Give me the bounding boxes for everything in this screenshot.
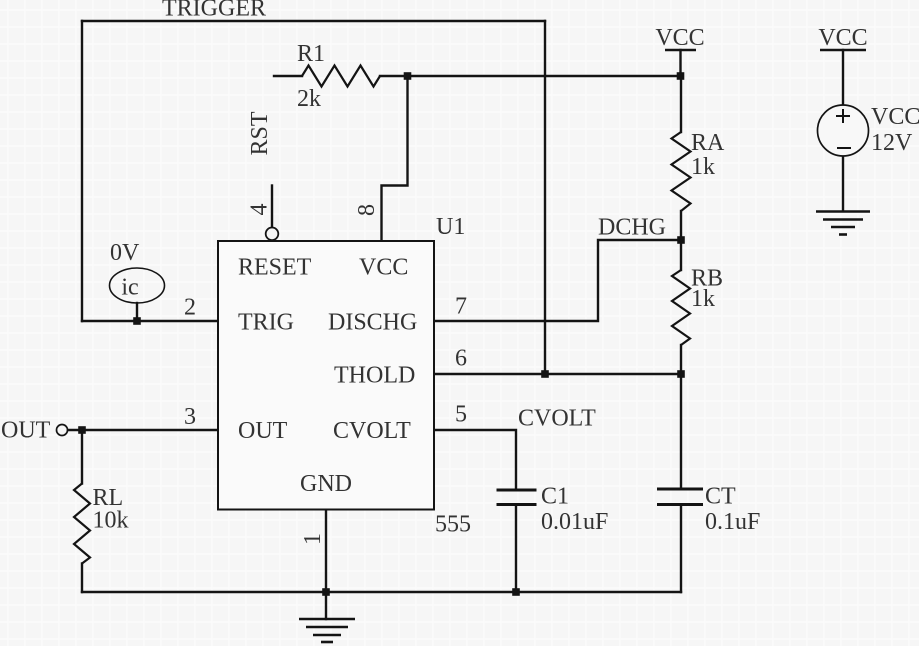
wire RA bottom lead <box>680 211 682 240</box>
wire RL top lead <box>81 430 83 484</box>
svg-text:DCHG: DCHG <box>598 215 666 241</box>
wire RST stub <box>271 186 273 227</box>
node THOLD-RB junction <box>677 370 685 378</box>
capacitor CT <box>657 489 703 505</box>
svg-text:0.01uF: 0.01uF <box>541 509 608 535</box>
svg-text:1: 1 <box>300 533 326 545</box>
wire CT top lead <box>680 374 682 488</box>
svg-text:VCC: VCC <box>655 25 704 51</box>
wire RA top lead <box>680 76 682 132</box>
node OUT open terminal <box>57 425 68 436</box>
wire R1 left lead <box>274 75 302 77</box>
ground under source <box>816 212 870 235</box>
power VCC rail right <box>820 49 866 52</box>
svg-text:12V: 12V <box>871 130 913 156</box>
node OUT junction <box>78 426 86 434</box>
wire source to ground <box>842 156 844 211</box>
svg-text:TRIG: TRIG <box>238 310 294 336</box>
wire CVOLT pin 5 path <box>434 430 516 489</box>
svg-text:DISCHG: DISCHG <box>328 310 417 336</box>
node TRIG junction <box>133 317 141 325</box>
wire ground stub under rail <box>325 592 327 619</box>
svg-text:3: 3 <box>184 404 196 430</box>
svg-text:1k: 1k <box>691 286 715 312</box>
svg-text:CVOLT: CVOLT <box>333 418 411 444</box>
svg-text:5: 5 <box>455 402 467 428</box>
svg-text:ic: ic <box>121 275 138 301</box>
wire ground rail bottom <box>82 591 681 593</box>
wire DCHG path to pin 7 <box>434 240 681 321</box>
svg-text:CVOLT: CVOLT <box>518 406 596 432</box>
wire TRIG row to pin 2 <box>82 320 218 322</box>
svg-text:OUT: OUT <box>238 418 288 444</box>
svg-text:6: 6 <box>455 346 467 372</box>
svg-text:0V: 0V <box>110 240 140 266</box>
svg-text:7: 7 <box>455 294 467 320</box>
wire OUT row to pin 3 <box>68 429 218 431</box>
svg-text:R1: R1 <box>297 41 325 67</box>
svg-text:RA: RA <box>691 130 725 156</box>
svg-text:555: 555 <box>435 512 471 538</box>
wire TRIGGER right vertical <box>544 21 546 374</box>
ground main <box>299 619 355 642</box>
node C1 rail junction <box>512 588 520 596</box>
wire THOLD pin 6 row <box>434 373 681 375</box>
svg-text:THOLD: THOLD <box>334 363 415 389</box>
svg-text:GND: GND <box>300 471 352 497</box>
wire RL bottom lead <box>81 564 83 593</box>
svg-text:C1: C1 <box>541 484 569 510</box>
svg-text:0.1uF: 0.1uF <box>705 509 760 535</box>
node R1/pin8 junction <box>404 72 412 80</box>
wire CT bottom lead <box>680 506 682 593</box>
power VCC rail left <box>665 49 696 52</box>
op IC U1 555 box <box>218 241 434 510</box>
svg-text:CT: CT <box>705 484 736 510</box>
wire C1 bottom lead <box>515 506 517 593</box>
wire R1 right lead to VCC rail <box>380 75 681 77</box>
resistor RB <box>672 270 690 345</box>
resistor RL <box>74 484 90 564</box>
source V1 VCC 12V <box>818 105 869 156</box>
wire TRIGGER left vertical <box>81 21 83 321</box>
resistor R1 <box>302 66 380 87</box>
node THOLD-trigger junction <box>541 370 549 378</box>
svg-text:U1: U1 <box>436 214 465 240</box>
svg-text:OUT: OUT <box>1 418 51 444</box>
node GND rail junction <box>322 588 330 596</box>
svg-text:10k: 10k <box>93 508 129 534</box>
wire pin 8 VCC path <box>382 76 408 241</box>
node DCHG junction <box>677 236 685 244</box>
svg-text:RESET: RESET <box>238 255 312 281</box>
svg-text:4: 4 <box>247 204 273 216</box>
svg-text:8: 8 <box>354 204 380 216</box>
node RST open terminal <box>266 228 279 241</box>
wire VCC right rail stub <box>842 50 844 105</box>
svg-text:RST: RST <box>247 111 273 155</box>
svg-text:1k: 1k <box>691 154 715 180</box>
resistor RA <box>672 132 691 211</box>
wire VCC left rail stub <box>679 50 681 76</box>
wire RB top lead <box>680 240 682 270</box>
svg-text:VCC: VCC <box>818 25 867 51</box>
wire RB bottom lead <box>680 345 682 374</box>
probe ic 0V <box>110 268 165 303</box>
node VCC rail junction <box>677 72 685 80</box>
svg-text:2: 2 <box>184 295 196 321</box>
wire TRIGGER top horizontal <box>82 20 545 22</box>
capacitor C1 <box>497 490 537 505</box>
svg-text:TRIGGER: TRIGGER <box>162 0 266 22</box>
svg-text:VCC: VCC <box>359 255 408 281</box>
wire ic probe stub <box>136 303 138 321</box>
wire GND pin 1 <box>325 510 327 593</box>
svg-text:2k: 2k <box>297 86 321 112</box>
svg-text:VCC: VCC <box>871 104 919 130</box>
